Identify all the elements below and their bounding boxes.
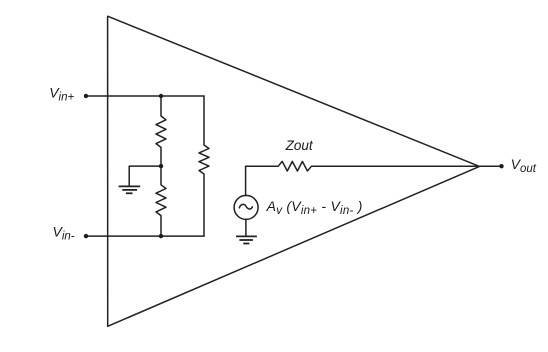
svg-text:Vout: Vout (511, 156, 537, 175)
svg-text:Vin-: Vin- (53, 224, 75, 243)
svg-text:Zout: Zout (285, 138, 314, 153)
svg-text:Av (Vin+ - Vin- ): Av (Vin+ - Vin- ) (266, 198, 363, 217)
svg-text:Vin+: Vin+ (49, 85, 74, 104)
